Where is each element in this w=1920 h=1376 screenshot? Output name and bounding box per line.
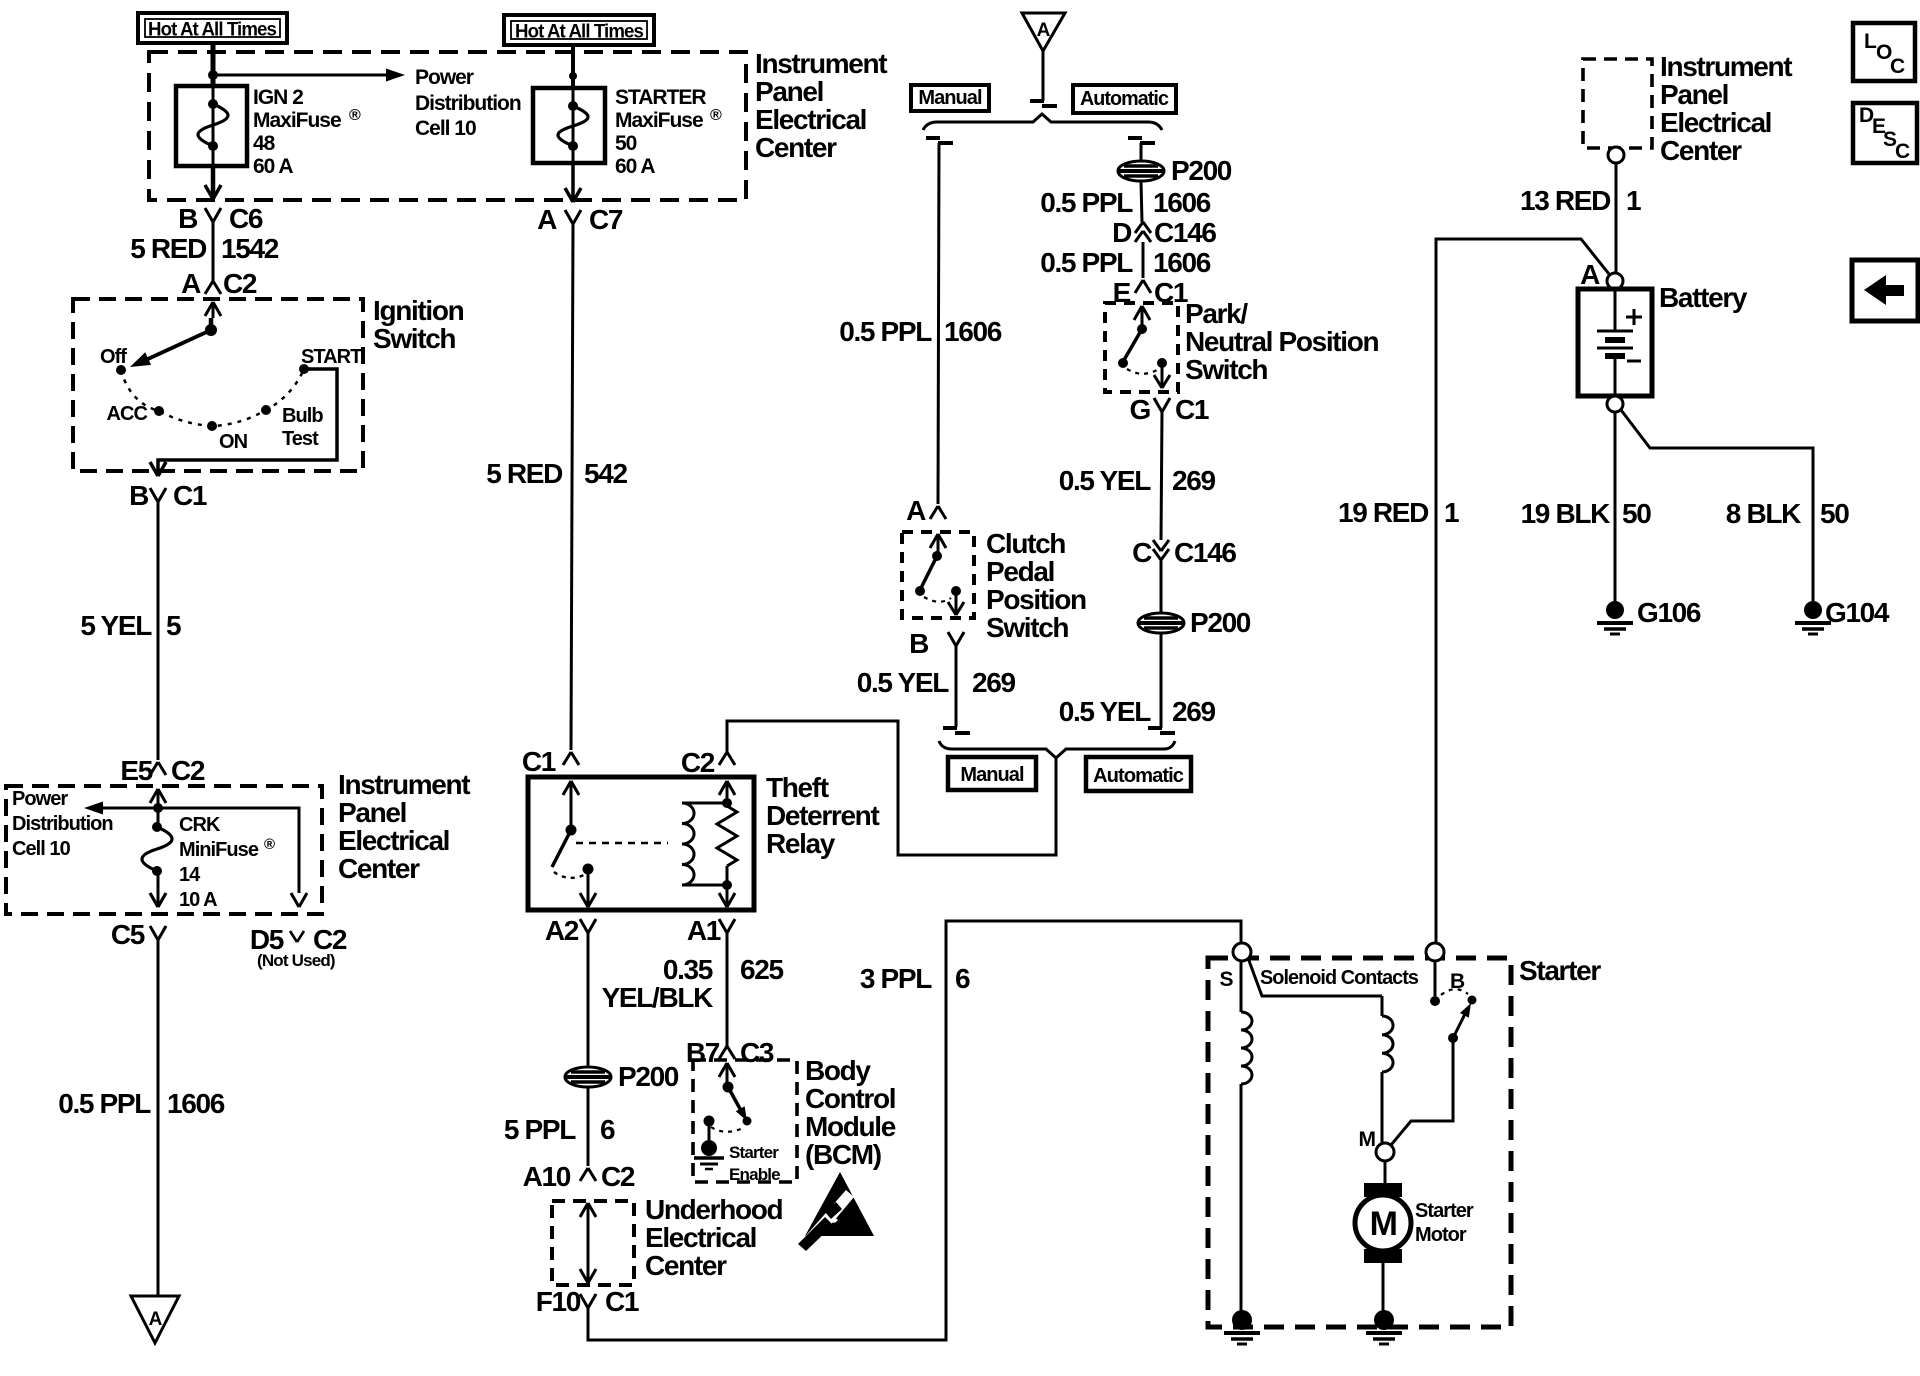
dashed arc relay switch [554,872,584,878]
svg-text:C6: C6 [229,203,263,234]
terminal circle (IPEC output) [1608,147,1624,163]
svg-text:C146: C146 [1174,537,1236,568]
terminal circle M [1376,1143,1394,1161]
svg-text:50: 50 [1622,498,1651,529]
svg-text:Motor: Motor [1415,1224,1467,1246]
connector break at top of automatic branch [1128,136,1142,140]
wire: 5 RED 1542 [212,222,215,281]
wire: arrow to Power Distribution Cell 10 (left) [96,807,158,810]
underhood entry pin arrow [580,1203,588,1217]
svg-text:ON: ON [219,431,248,453]
svg-text:Test: Test [282,428,319,450]
dashed box: Starter [1208,958,1511,1327]
svg-text:Power: Power [415,66,474,89]
svg-text:C2: C2 [223,268,257,299]
svg-text:5 PPL: 5 PPL [504,1114,576,1145]
battery minus sign [1627,360,1641,363]
svg-text:0.5 PPL: 0.5 PPL [1040,247,1133,278]
splice P200 (middle top) [1118,161,1164,181]
wire: 0.5 YEL 269 (manual) [955,646,958,727]
svg-text:Deterrent: Deterrent [766,800,879,831]
svg-text:Automatic: Automatic [1080,88,1169,110]
svg-text:Panel: Panel [338,797,406,828]
svg-text:Off: Off [100,346,127,368]
node: clutch pivot [932,551,942,561]
node: blob above STARTER fuse [569,72,577,80]
dashed arc solenoid contacts [1441,989,1468,995]
wire: F10 down and right to 3 PPL 6 riser [588,921,1241,1340]
ignition switch wiper arrow to Off [137,330,211,364]
svg-text:Automatic: Automatic [1093,765,1184,787]
svg-text:B: B [178,203,197,234]
svg-text:542: 542 [584,458,627,489]
contact START [299,364,309,374]
svg-text:0.5 YEL: 0.5 YEL [857,667,950,698]
battery internal symbol [1614,289,1617,330]
wire: brace output to theft relay C2 [727,721,1056,855]
svg-text:Enable: Enable [729,1165,780,1184]
node: BCM switch contact [743,1117,752,1126]
clutch input pin arrow [930,534,938,548]
svg-text:A: A [906,495,926,526]
svg-text:M: M [1359,1128,1376,1151]
wire: 0.5 PPL 1606 (left) down to triangle A [157,940,160,1296]
svg-text:50: 50 [615,132,637,155]
svg-text:8 BLK: 8 BLK [1726,498,1801,529]
svg-text:60 A: 60 A [253,155,293,178]
svg-text:Module: Module [805,1111,896,1142]
svg-text:G: G [1130,394,1151,425]
node: clutch left contact [915,586,925,596]
svg-text:Bulb: Bulb [282,405,323,427]
relay resistor [726,781,729,806]
svg-text:14: 14 [179,864,201,886]
svg-text:6: 6 [600,1114,615,1145]
contact ACC [154,406,164,416]
legend box back arrow [1852,260,1918,321]
svg-text:Panel: Panel [1660,79,1728,110]
dashed box: IP electrical center (CRK fuse block) [6,786,322,914]
svg-text:(Not Used): (Not Used) [257,951,335,970]
svg-text:48: 48 [253,132,276,155]
park/neutral input pin arrow [1134,306,1142,320]
relay box: Theft Deterrent Relay [528,777,754,910]
svg-text:Electrical: Electrical [1660,107,1771,138]
svg-text:CRK: CRK [179,814,221,836]
svg-text:C2: C2 [681,747,715,778]
svg-text:Panel: Panel [755,76,823,107]
svg-text:MaxiFuse: MaxiFuse [615,109,703,132]
svg-text:A1: A1 [687,915,721,946]
svg-text:13 RED: 13 RED [1520,185,1611,216]
svg-text:50: 50 [1820,498,1849,529]
dashed box: Instrument Panel Electrical Center (fuse block) [149,52,746,200]
wire: 13 RED 1 [1615,163,1618,274]
ESD warning symbol [805,1172,874,1236]
node: BCM switch pivot [723,1082,734,1093]
dashed arc clutch switch [924,597,951,602]
splice P200 (left) [565,1067,611,1087]
underhood internal wire [587,1203,590,1283]
svg-text:C: C [1895,140,1910,163]
brace joining Manual/Automatic (lower) [939,741,1175,758]
node: clutch right contact [951,586,961,596]
svg-text:A2: A2 [545,915,579,946]
svg-text:A: A [1037,20,1051,41]
terminal circle S [1233,943,1251,961]
svg-text:Center: Center [755,132,837,163]
svg-text:1606: 1606 [1153,247,1211,278]
splice P200 (middle lower) [1138,613,1184,633]
svg-text:F10: F10 [536,1286,581,1317]
relay C2 pin arrow [719,781,727,795]
svg-text:IGN 2: IGN 2 [253,86,303,109]
terminal circle B [1426,943,1444,961]
wire from triangle A [1042,51,1045,101]
svg-text:5 RED: 5 RED [130,233,207,264]
svg-text:1606: 1606 [167,1088,225,1119]
contact ON [207,421,217,431]
svg-text:5: 5 [166,610,181,641]
svg-text:®: ® [349,107,361,124]
dashed box: Park/Neutral Position Switch [1105,303,1178,392]
svg-text:Switch: Switch [373,323,455,354]
svg-text:Center: Center [645,1250,727,1281]
svg-text:Hot At All Times: Hot At All Times [148,19,277,41]
svg-text:P200: P200 [1190,607,1251,638]
wire: motor to ground [1384,1161,1387,1183]
connector break at bottom of automatic branch [1148,726,1162,730]
off-page triangle A (bottom left) [131,1296,179,1343]
wire: START contact to ignition output [158,369,337,474]
svg-text:B: B [909,628,928,659]
node: relay switch pivot [566,825,577,836]
svg-text:Solenoid Contacts: Solenoid Contacts [1260,967,1419,989]
label box: Automatic (lower) [1086,757,1191,791]
underhood exit pin arrow [580,1269,588,1283]
svg-text:Starter: Starter [729,1143,779,1162]
connector break at top of manual branch [926,136,940,140]
svg-text:M: M [1370,1205,1397,1243]
svg-text:269: 269 [1172,696,1215,727]
svg-text:Theft: Theft [766,772,829,803]
dashed box: Instrument Panel Electrical Center (right) [1583,59,1652,148]
svg-text:5 YEL: 5 YEL [80,610,152,641]
svg-text:Underhood: Underhood [645,1194,782,1225]
svg-text:START: START [301,346,362,368]
svg-text:Electrical: Electrical [645,1222,756,1253]
wire: 5 YEL 5 [157,502,160,760]
svg-text:Position: Position [986,584,1086,615]
svg-text:0.5 PPL: 0.5 PPL [1040,187,1133,218]
svg-text:C5: C5 [111,919,145,950]
wire: 5 PPL 6 [587,1087,590,1166]
svg-text:Body: Body [805,1055,871,1086]
wire: branch to D5 (not used) [158,808,299,893]
clutch switch blade [921,556,937,588]
wire: feed from Hot At All Times to IGN2 fuse [211,41,216,88]
label box: Automatic (top) [1073,85,1176,113]
svg-text:0.5 PPL: 0.5 PPL [58,1088,151,1119]
svg-text:C146: C146 [1154,217,1216,248]
wire from S to hold-in coil [1248,958,1382,996]
clutch output arrow [955,595,958,612]
node: park/neutral pivot [1137,324,1147,334]
svg-text:C3: C3 [740,1037,774,1068]
svg-text:C2: C2 [601,1161,635,1192]
svg-text:5 RED: 5 RED [486,458,563,489]
terminal circle battery positive [1607,273,1623,289]
svg-text:19 RED: 19 RED [1338,497,1429,528]
wire: STARTER fuse output arrow [571,161,575,202]
svg-text:A: A [1580,259,1600,290]
label box: Manual (top) [911,85,989,111]
svg-text:Electrical: Electrical [338,825,449,856]
wire: 0.5 YEL 269 (upper auto) [1161,412,1162,540]
svg-text:Electrical: Electrical [755,104,866,135]
wire: automatic branch to P200 [1140,143,1143,161]
svg-text:0.35: 0.35 [663,954,713,985]
svg-text:S: S [1220,968,1234,991]
node: ignition wiper pivot [205,324,217,336]
svg-text:Manual: Manual [960,764,1024,786]
contact Off [116,365,126,375]
relay A1 pin arrow [719,893,727,907]
wire: 0.5 YEL 269 (lower auto) [1160,633,1163,728]
svg-text:C1: C1 [1175,394,1209,425]
BCM starter enable switch blade [728,1087,744,1116]
battery box [1578,289,1652,396]
CRK fuse input pin arrow [150,789,158,803]
ground starter motor [1374,1310,1394,1330]
svg-text:P200: P200 [618,1061,679,1092]
svg-text:625: 625 [740,954,783,985]
svg-text:1542: 1542 [221,233,279,264]
svg-text:Switch: Switch [986,612,1068,643]
svg-text:1606: 1606 [1153,187,1211,218]
svg-text:C7: C7 [589,204,623,235]
svg-text:P200: P200 [1171,155,1232,186]
relay coil [682,802,727,805]
dashed box: Underhood Electrical Center [552,1201,634,1285]
svg-text:Cell 10: Cell 10 [415,117,476,140]
svg-text:Switch: Switch [1185,354,1267,385]
svg-text:Distribution: Distribution [415,92,521,115]
svg-text:6: 6 [955,963,970,994]
svg-text:C1: C1 [522,746,556,777]
svg-text:Instrument: Instrument [1660,51,1792,82]
svg-text:A: A [537,204,557,235]
node: park/neutral right contact [1157,358,1167,368]
svg-text:A: A [149,1309,163,1330]
BCM internal ground [708,1121,711,1140]
svg-text:G104: G104 [1825,597,1890,628]
label box: Manual (lower) [948,757,1036,790]
node: coil top junction [722,798,732,808]
dashed arc park/neutral switch [1127,369,1157,374]
svg-text:269: 269 [1172,465,1215,496]
relay switch blade [552,830,571,867]
svg-text:1: 1 [1626,185,1641,216]
node: solenoid second contact [1468,996,1477,1005]
svg-text:G106: G106 [1637,597,1701,628]
off-page triangle A (top) [1022,13,1065,51]
svg-text:Pedal: Pedal [986,556,1054,587]
label box: Hot At All Times (left) [138,13,287,43]
wire: 8 BLK 50 to G104 [1621,410,1813,601]
svg-text:Power: Power [12,788,68,810]
svg-text:C: C [1890,55,1905,78]
svg-text:Starter: Starter [1519,955,1601,986]
svg-text:Starter: Starter [1415,1200,1474,1222]
svg-text:Clutch: Clutch [986,528,1065,559]
brace splitting Manual/Automatic [923,114,1162,130]
svg-text:3 PPL: 3 PPL [860,963,932,994]
svg-text:Distribution: Distribution [12,813,113,835]
solenoid moving contact arrow [1448,1033,1458,1043]
wire: 0.5 PPL 1606 (upper) [1141,181,1142,222]
svg-text:0.5 PPL: 0.5 PPL [839,316,932,347]
fuse CRK MiniFuse 14 10A [157,808,160,827]
svg-text:10 A: 10 A [179,889,217,911]
svg-text:B: B [129,480,148,511]
svg-text:MaxiFuse: MaxiFuse [253,109,341,132]
svg-text:Instrument: Instrument [755,48,887,79]
svg-text:19 BLK: 19 BLK [1521,498,1611,529]
svg-text:1606: 1606 [944,316,1002,347]
svg-text:C: C [1132,537,1152,568]
svg-text:60 A: 60 A [615,155,655,178]
dashed arc of ignition positions [121,369,304,426]
ground G104 [1804,601,1822,619]
svg-text:Cell 10: Cell 10 [12,838,71,860]
legend box DESC [1853,103,1917,163]
node: coil bottom junction [722,880,732,890]
relay C1 pin arrow [563,781,571,795]
wire: 5 RED 542 down to theft relay [571,224,573,750]
svg-text:Manual: Manual [918,87,982,109]
wire: IGN2 fuse output with arrow through box edge [211,164,216,199]
svg-text:ACC: ACC [107,403,148,425]
svg-text:C1: C1 [173,480,207,511]
park/neutral output arrow [1161,367,1164,385]
svg-text:0.5 YEL: 0.5 YEL [1059,465,1152,496]
svg-text:A: A [181,268,201,299]
svg-text:C2: C2 [171,755,205,786]
svg-text:®: ® [710,107,722,124]
node: junction above IGN2 fuse [208,70,218,80]
wire: manual branch 0.5 PPL 1606 [938,143,939,504]
dashed box: Body Control Module (BCM) [693,1060,797,1182]
svg-text:Instrument: Instrument [338,769,470,800]
fuse IGN 2 MaxiFuse 48 60A [176,86,247,166]
node: solenoid fixed contact [1430,996,1440,1006]
solenoid hold-in coil (right) [1381,996,1384,1016]
svg-text:STARTER: STARTER [615,86,706,109]
svg-text:(BCM): (BCM) [805,1139,881,1170]
ground starter solenoid [1232,1310,1252,1330]
battery plus sign [1626,316,1642,319]
starter motor [1355,1195,1411,1251]
svg-text:Relay: Relay [766,828,836,859]
svg-text:B7: B7 [686,1037,720,1068]
connector break at bottom of manual branch [943,726,957,730]
svg-text:C1: C1 [605,1286,639,1317]
svg-text:0.5 YEL: 0.5 YEL [1059,696,1152,727]
svg-text:269: 269 [972,667,1015,698]
park/neutral switch blade [1124,329,1142,360]
ignition switch input pin arrow [205,302,213,316]
wire: A2 to P200 [587,933,590,1067]
svg-text:Neutral Position: Neutral Position [1185,326,1378,357]
svg-text:D: D [1112,217,1132,248]
wire: 19 BLK 50 to G106 [1614,412,1617,601]
wire: 19 RED 1 from battery positive to starter B [1436,239,1609,943]
wire: arrow to Power Distribution Cell 10 [213,74,390,77]
BCM switch left contact [704,1116,715,1127]
wire: 0.35 YEL/BLK 625 [726,933,729,1046]
legend box LOC [1853,23,1915,81]
svg-text:A10: A10 [523,1161,571,1192]
svg-text:E5: E5 [120,755,152,786]
svg-text:MiniFuse: MiniFuse [179,839,259,861]
dashed box: Ignition Switch [73,299,363,471]
wire: feed to STARTER fuse [571,43,575,90]
terminal circle battery negative [1607,396,1623,412]
ground G106 [1606,601,1624,619]
relay actuating dashed link [576,842,668,844]
fuse STARTER MaxiFuse 50 60A [533,88,605,163]
svg-text:Control: Control [805,1083,895,1114]
svg-text:Park/: Park/ [1185,298,1248,329]
BCM B7 pin arrow [719,1063,727,1077]
label box: Hot At All Times (right) [504,15,654,45]
svg-text:Ignition: Ignition [373,295,464,326]
ignition switch wiper stub [209,318,214,330]
svg-text:Battery: Battery [1659,282,1748,313]
svg-text:Hot At All Times: Hot At All Times [515,21,644,43]
dashed arc BCM switch [711,1127,743,1132]
dashed box: Clutch Pedal Position Switch [902,532,974,618]
svg-text:1: 1 [1444,497,1459,528]
contact Bulb Test [261,405,271,415]
wire from B to solenoid contact [1434,961,1437,996]
svg-text:®: ® [264,836,275,853]
node: junction above CRK fuse [153,803,163,813]
svg-text:Center: Center [1660,135,1742,166]
relay A2 wire with pin arrow [587,874,590,905]
relay switch contact to A2 [583,864,594,875]
wire: solenoid contact to motor [1391,1041,1453,1145]
connector break (A wire) [1030,99,1044,103]
node: park/neutral left contact [1118,358,1128,368]
svg-text:Center: Center [338,853,420,884]
solenoid pull-in coil (left) [1240,961,1243,1012]
svg-text:YEL/BLK: YEL/BLK [602,982,714,1013]
